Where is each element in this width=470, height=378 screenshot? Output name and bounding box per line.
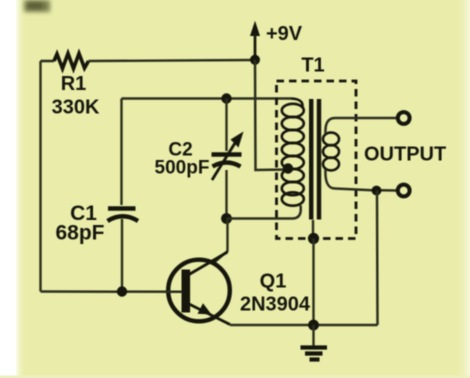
secondary bottom lead — [325, 169, 396, 191]
terminal: output upper — [398, 112, 410, 124]
emitter arrowhead — [198, 303, 212, 314]
wire: left rail vertical — [39, 61, 41, 292]
svg-text:Q1: Q1 — [260, 271, 287, 293]
wire: R1 to +9V junction — [89, 60, 256, 61]
wire: base rail — [41, 290, 183, 293]
wire: emitter rail to right — [230, 324, 378, 327]
svg-text:2N3904: 2N3904 — [240, 294, 311, 316]
node: +9V junction dot — [250, 55, 260, 65]
ground — [312, 325, 314, 347]
wire: feedback top rail y=98.5 — [122, 97, 292, 100]
primary winding — [291, 99, 303, 108]
svg-text:R1: R1 — [61, 73, 87, 95]
wire: C2 top lead — [225, 99, 227, 152]
wire: collector riser — [213, 219, 228, 264]
left white margin — [0, 0, 26, 378]
svg-text:+9V: +9V — [266, 23, 303, 45]
wire: +9V rail down to tap — [255, 60, 287, 170]
secondary top lead — [325, 118, 396, 134]
terminal: output lower — [398, 185, 410, 197]
svg-text:OUTPUT: OUTPUT — [364, 144, 446, 166]
collector inner lead — [189, 252, 228, 275]
node: C2 bottom junction dot — [221, 213, 232, 224]
transformer T1 dashed box — [277, 81, 357, 239]
wire: C1 to base rail — [121, 219, 123, 292]
secondary winding — [323, 133, 339, 171]
+9V arrow — [250, 21, 260, 36]
wire: C1 branch vertical — [120, 99, 122, 206]
transformer core — [309, 99, 313, 220]
resistor R1 — [54, 54, 89, 69]
wire: C2 bottom lead — [225, 170, 227, 219]
scan artifacts — [0, 376, 470, 378]
top-left dark speckle patch — [24, 0, 50, 12]
wire: top-left corner to resistor — [41, 60, 55, 63]
capacitor C1 — [108, 206, 136, 210]
svg-text:500pF: 500pF — [155, 158, 210, 179]
transistor Q1 — [168, 260, 230, 322]
node: ground junction dot — [308, 320, 319, 331]
svg-text:68pF: 68pF — [55, 222, 104, 245]
svg-text:330K: 330K — [52, 97, 100, 119]
emitter lead — [189, 304, 230, 325]
wire: junction to primary bottom — [227, 206, 301, 219]
node: transformer bottom dot — [308, 233, 319, 244]
wire: transformer bottom to ground rail — [312, 239, 314, 326]
node: C2 top junction dot — [221, 93, 231, 103]
node: output lower junction dot — [372, 186, 382, 196]
capacitor C2 (variable) — [212, 152, 242, 156]
node: primary tap dot — [283, 163, 293, 173]
wire: core ground stub — [312, 220, 314, 239]
svg-text:T1: T1 — [301, 55, 324, 77]
wire: right drop from output — [376, 191, 379, 326]
node: base junction dot — [117, 286, 127, 296]
right light edge — [458, 0, 470, 378]
